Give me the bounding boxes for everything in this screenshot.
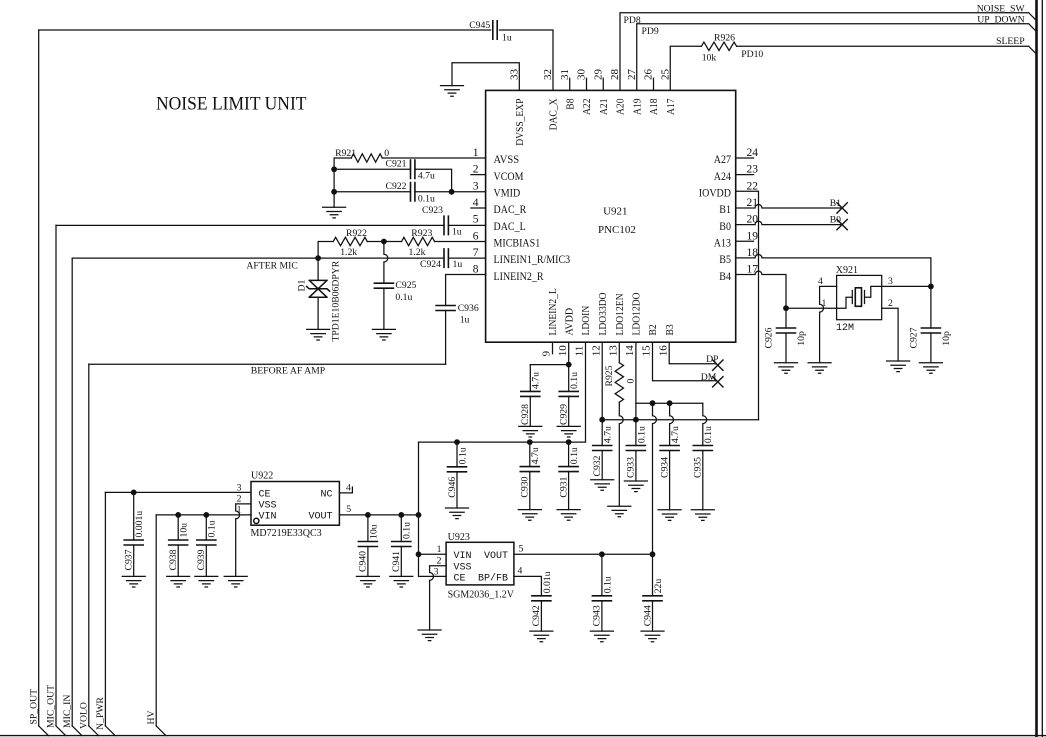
junction dot B4 C926	[783, 305, 789, 311]
wire 3.3V vertical C946 rail to U923 VIN	[418, 442, 420, 554]
svg-text:U923: U923	[448, 532, 470, 543]
svg-text:CE: CE	[259, 490, 271, 501]
junction dot C938	[175, 512, 181, 518]
svg-text:MD7219E33QC3: MD7219E33QC3	[251, 528, 322, 539]
wire R925 to ground with hop	[619, 402, 623, 506]
3.3V LDO rail horizontal	[602, 419, 758, 421]
ground C935	[691, 510, 714, 521]
ground R921 node	[323, 207, 346, 218]
capacitor C944 22u	[652, 554, 654, 596]
svg-text:5: 5	[346, 504, 351, 515]
svg-text:17: 17	[747, 264, 759, 276]
svg-text:R921: R921	[335, 148, 356, 159]
svg-text:PNC102: PNC102	[598, 224, 636, 236]
node VCOM capacitor wire C921	[334, 169, 452, 192]
svg-text:MIC_IN: MIC_IN	[62, 695, 73, 728]
svg-text:LINEIN2_L: LINEIN2_L	[547, 288, 559, 336]
svg-text:4.7u: 4.7u	[603, 426, 614, 443]
junction dot pin14 rail	[633, 417, 639, 423]
capacitor C939 0.1u	[205, 515, 207, 540]
ground C946	[446, 508, 469, 519]
svg-text:4: 4	[518, 566, 523, 577]
wire C925 branch vertical with hop	[384, 242, 388, 284]
svg-text:N_PWR: N_PWR	[95, 697, 106, 730]
wire LDO12DO pin 14 vertical	[635, 342, 637, 420]
svg-text:DAC_R: DAC_R	[494, 204, 527, 216]
svg-text:0.1u: 0.1u	[402, 522, 413, 539]
svg-text:10u: 10u	[179, 523, 190, 538]
wire crystal pin 3 to C927 node	[882, 285, 931, 287]
capacitor C945 1u	[493, 21, 497, 39]
svg-text:LDO12DO: LDO12DO	[631, 292, 643, 335]
svg-text:A24: A24	[714, 171, 731, 183]
wire B0 pin 20 no connect	[736, 221, 842, 224]
capacitor C927 10p	[930, 286, 932, 328]
wire MIC_IN rail vertical	[71, 258, 73, 726]
junction dot 3.3V cross	[416, 512, 422, 518]
svg-text:HV: HV	[146, 711, 157, 725]
wire HV rail vertical	[155, 515, 157, 726]
ground C928	[519, 426, 542, 437]
ground C927	[919, 363, 942, 374]
wire U922 VOUT 3.3V net	[339, 514, 418, 516]
wire DAC_L pin 5 to MIC_OUT	[56, 224, 486, 226]
svg-text:7: 7	[473, 247, 479, 259]
svg-text:VIN: VIN	[454, 551, 472, 562]
crystal X921 12M body	[837, 275, 882, 319]
svg-text:DVSS_EXP: DVSS_EXP	[514, 99, 526, 146]
svg-text:2: 2	[888, 298, 893, 309]
svg-text:22u: 22u	[653, 579, 664, 594]
svg-text:R925: R925	[604, 365, 615, 386]
svg-text:12: 12	[590, 345, 602, 356]
svg-text:1u: 1u	[460, 314, 470, 325]
svg-text:C946: C946	[447, 477, 458, 498]
svg-text:C927: C927	[909, 327, 920, 348]
capacitor C937 0.001u	[133, 492, 135, 540]
junction dot C930	[527, 439, 533, 445]
svg-text:4.7u: 4.7u	[530, 447, 541, 464]
capacitor C929 0.1u	[559, 391, 578, 396]
wire CE net U922 pin 3	[105, 491, 251, 493]
ground crystal pin2	[887, 361, 910, 372]
ground C937	[122, 576, 145, 587]
svg-text:A13: A13	[714, 237, 731, 249]
wire 1.2V long vertical to U923 VOUT	[653, 403, 657, 554]
junction dot B5 C927	[928, 284, 934, 290]
capacitor C926 10p	[785, 308, 787, 328]
capacitor C941 0.1u	[400, 515, 402, 542]
svg-text:LINEIN2_R: LINEIN2_R	[494, 271, 544, 283]
svg-text:0.1u: 0.1u	[602, 576, 613, 593]
ground C942	[530, 631, 553, 642]
junction dot AFTER MIC D1	[315, 255, 321, 261]
svg-text:15: 15	[641, 345, 653, 357]
svg-text:IOVDD: IOVDD	[699, 188, 731, 200]
capacitor C932 4.7u	[593, 446, 612, 451]
svg-text:C935: C935	[693, 457, 704, 478]
wire U923 CE tie to VIN	[419, 554, 447, 576]
wire AVSS pin 1 with R921	[334, 158, 486, 207]
svg-text:8: 8	[473, 264, 479, 276]
capacitor C931 0.1u	[568, 442, 570, 467]
svg-text:19: 19	[747, 230, 759, 242]
ground C938	[167, 576, 190, 587]
svg-text:A20: A20	[615, 98, 627, 115]
svg-text:PD10: PD10	[741, 49, 763, 60]
junction dot row C934 column	[667, 400, 673, 406]
svg-text:0.01u: 0.01u	[542, 571, 553, 593]
junction dot R922 R923	[381, 239, 387, 245]
svg-text:12M: 12M	[836, 323, 854, 334]
ground D1	[307, 329, 330, 340]
no-connect X B1	[837, 203, 847, 213]
resistor R923 1.2k	[402, 237, 435, 245]
svg-text:B3: B3	[664, 324, 676, 336]
U922 NC stub pin 4	[339, 487, 352, 493]
junction dot C937	[131, 490, 137, 496]
svg-text:VIN: VIN	[259, 512, 277, 523]
svg-text:B0: B0	[830, 215, 841, 226]
wire U922 VSS pin 2 to ground	[236, 504, 251, 577]
resistor R921 0	[351, 154, 382, 162]
wire U923 VIN pin 1	[419, 553, 447, 555]
svg-text:VOUT: VOUT	[484, 551, 508, 562]
svg-text:1u: 1u	[502, 32, 512, 43]
wire BEFORE AF AMP net	[89, 363, 446, 365]
svg-text:3: 3	[473, 180, 479, 192]
svg-text:10u: 10u	[368, 524, 379, 539]
wire DVSS_EXP pin 33 to ground	[452, 63, 519, 91]
capacitor C946 0.1u	[456, 442, 458, 467]
svg-text:C937: C937	[124, 549, 135, 570]
svg-text:0: 0	[626, 379, 637, 384]
svg-text:VSS: VSS	[454, 562, 472, 573]
svg-text:B4: B4	[719, 271, 731, 283]
svg-text:C936: C936	[458, 303, 479, 314]
junction dot C922 left	[331, 189, 337, 195]
svg-text:0.1u: 0.1u	[418, 194, 435, 205]
wire N_PWR rail vertical	[104, 492, 106, 726]
svg-text:MIC_OUT: MIC_OUT	[46, 685, 57, 728]
junction dot C931	[566, 439, 572, 445]
svg-text:C934: C934	[659, 457, 670, 478]
svg-text:VSS: VSS	[259, 501, 277, 512]
svg-text:3: 3	[888, 276, 893, 287]
svg-text:R926: R926	[714, 32, 735, 43]
wire MIC_OUT rail vertical	[55, 225, 57, 726]
wire SP_OUT top horizontal to C945	[39, 29, 491, 31]
svg-text:DAC_X: DAC_X	[548, 98, 560, 130]
svg-text:SGM2036_1.2V: SGM2036_1.2V	[448, 589, 515, 600]
svg-text:1.2k: 1.2k	[340, 247, 357, 258]
svg-text:18: 18	[747, 247, 759, 259]
svg-text:13: 13	[608, 345, 620, 357]
svg-text:C929: C929	[559, 404, 570, 425]
svg-text:C928: C928	[520, 404, 531, 425]
svg-text:0.1u: 0.1u	[395, 292, 412, 303]
wire B1 pin 21 no connect	[736, 205, 842, 208]
wire SP_OUT rail left vertical	[38, 30, 40, 726]
wire R926 to SLEEP border	[737, 46, 1037, 54]
capacitor C940 10u	[367, 515, 369, 542]
resistor R926 10k	[701, 42, 736, 50]
svg-text:9: 9	[541, 350, 553, 356]
svg-text:U922: U922	[251, 471, 273, 482]
svg-text:0.1u: 0.1u	[569, 447, 580, 464]
svg-text:SLEEP: SLEEP	[996, 36, 1025, 47]
svg-text:1: 1	[473, 147, 479, 159]
wire B3 pin 16 to DP	[669, 342, 716, 364]
svg-text:AFTER MIC: AFTER MIC	[246, 261, 297, 272]
svg-text:C945: C945	[469, 20, 490, 31]
wire B2 pin 15 to DM	[653, 342, 717, 381]
svg-text:4: 4	[473, 197, 479, 209]
svg-text:2: 2	[437, 556, 442, 567]
junction dot VMID	[449, 189, 455, 195]
ground C941	[390, 576, 413, 587]
capacitor C936 1u	[436, 306, 455, 311]
svg-text:LINEIN1_R/MIC3: LINEIN1_R/MIC3	[494, 254, 571, 266]
no-connect X DM	[713, 377, 723, 387]
svg-text:1: 1	[437, 544, 442, 555]
svg-text:2: 2	[237, 494, 242, 505]
wire B5 pin 18 to crystal	[736, 254, 931, 286]
svg-text:VOUT: VOUT	[308, 512, 332, 523]
svg-text:PD8: PD8	[624, 15, 641, 26]
svg-text:BEFORE AF AMP: BEFORE AF AMP	[251, 366, 325, 377]
wire rail diagonal exits at bottom border	[39, 726, 166, 736]
svg-text:23: 23	[747, 164, 759, 176]
wire VOLO rail vertical	[88, 364, 90, 726]
svg-text:U921: U921	[603, 206, 627, 218]
wire MICBIAS1 pin 6 resistors	[318, 242, 486, 259]
sheet border right double line	[1035, 0, 1038, 737]
wire C945 to pin 32 DAC_X	[499, 30, 553, 90]
junction dot C941	[398, 512, 404, 518]
svg-text:X921: X921	[836, 265, 858, 276]
ground C930	[518, 510, 541, 521]
capacitor C934 4.7u	[670, 403, 674, 445]
wire AVDD pin 10 node	[530, 342, 568, 391]
capacitor C938 10u	[177, 515, 179, 540]
sheet border bottom line	[0, 735, 1046, 737]
svg-text:C943: C943	[592, 605, 603, 626]
ground C929	[557, 426, 580, 437]
svg-text:4.7u: 4.7u	[670, 426, 681, 443]
svg-text:6: 6	[473, 230, 479, 242]
svg-text:14: 14	[624, 345, 636, 357]
svg-text:C925: C925	[395, 280, 416, 291]
svg-text:AVSS: AVSS	[494, 154, 520, 166]
svg-text:0.1u: 0.1u	[703, 426, 714, 443]
svg-text:R922: R922	[346, 228, 367, 239]
svg-text:11: 11	[574, 346, 586, 357]
wire PD9 UP_DOWN net pin 27	[637, 24, 1037, 91]
svg-text:VMID: VMID	[494, 188, 521, 200]
junction dot C940	[365, 512, 371, 518]
svg-text:NC: NC	[320, 490, 332, 501]
svg-text:0.1u: 0.1u	[636, 426, 647, 443]
svg-text:C940: C940	[358, 551, 369, 572]
ground R925	[608, 506, 631, 517]
svg-text:C922: C922	[386, 181, 407, 192]
svg-text:MICBIAS1: MICBIAS1	[494, 237, 541, 249]
svg-text:B5: B5	[719, 254, 731, 266]
wire PD8 NOISE_SW net pin 28	[620, 13, 1037, 91]
U922 VIN pin indicator circle	[254, 518, 259, 523]
ground C931	[557, 510, 580, 521]
junction dot U923 VIN	[416, 551, 422, 557]
svg-text:BP/FB: BP/FB	[478, 573, 508, 585]
svg-text:C926: C926	[764, 327, 775, 348]
ground C940	[356, 576, 379, 587]
svg-text:4: 4	[818, 276, 823, 287]
capacitor C921 4.7u	[411, 160, 415, 178]
wire LDO33DO pin 12 to rail	[601, 342, 603, 445]
svg-text:D1: D1	[297, 280, 308, 292]
svg-text:2: 2	[473, 164, 479, 176]
svg-text:0.1u: 0.1u	[457, 447, 468, 464]
svg-text:3: 3	[434, 566, 439, 577]
svg-text:1.2k: 1.2k	[409, 247, 426, 258]
svg-text:C938: C938	[168, 549, 179, 570]
svg-text:B1: B1	[719, 204, 731, 216]
svg-text:TPD1E10B06DPYR: TPD1E10B06DPYR	[330, 260, 341, 341]
svg-text:C924: C924	[420, 259, 441, 270]
ground crystal pin4	[808, 363, 831, 374]
svg-text:1u: 1u	[453, 259, 463, 270]
wire VIN net U922 pin 1	[156, 514, 251, 516]
svg-text:C942: C942	[531, 605, 542, 626]
capacitor C943 0.1u	[601, 554, 603, 596]
svg-text:C921: C921	[386, 158, 407, 169]
svg-text:NOISE_SW: NOISE_SW	[977, 3, 1026, 14]
svg-text:16: 16	[657, 345, 669, 357]
capacitor C935 0.1u	[703, 403, 707, 445]
capacitor C924 1u	[444, 249, 448, 267]
wire U923 BP/FB pin 4 to C942	[514, 576, 542, 595]
svg-text:0.1u: 0.1u	[569, 372, 580, 389]
capacitor C922 0.1u	[411, 183, 415, 201]
svg-text:SP_OUT: SP_OUT	[28, 689, 39, 725]
capacitor C942 0.01u	[532, 596, 551, 601]
IC U921 PNC102 body	[486, 90, 736, 342]
svg-text:VCOM: VCOM	[494, 171, 524, 183]
wire LDO12EN pin 13 via R925	[618, 342, 620, 363]
svg-text:A19: A19	[631, 98, 643, 115]
wire crystal pin 1 node to C926	[786, 307, 837, 309]
resistor R925 0	[615, 363, 623, 403]
ground C939	[195, 576, 218, 587]
ground C934	[658, 510, 681, 521]
svg-text:0.1u: 0.1u	[207, 520, 218, 537]
svg-text:C939: C939	[196, 549, 207, 570]
svg-text:A27: A27	[714, 154, 731, 166]
capacitor C933 0.1u	[635, 420, 637, 446]
no-connect X B0	[837, 219, 847, 229]
svg-text:10k: 10k	[702, 52, 717, 63]
ground U922 VSS	[224, 576, 247, 587]
ground C933	[624, 481, 647, 492]
svg-text:B8: B8	[564, 98, 576, 110]
ground DVSS_EXP	[441, 86, 464, 97]
junction dot C943	[599, 551, 605, 557]
ground C943	[590, 631, 613, 642]
svg-text:10p: 10p	[796, 331, 807, 346]
ground C925	[372, 329, 395, 340]
svg-text:C932: C932	[592, 455, 603, 476]
capacitor C925 0.1u	[374, 283, 393, 288]
svg-text:LDOIN: LDOIN	[580, 306, 592, 336]
svg-text:4: 4	[346, 483, 351, 494]
svg-text:22: 22	[747, 180, 759, 192]
svg-text:C923: C923	[422, 205, 443, 216]
U921 unconnected pin stubs	[471, 78, 754, 354]
junction dot pin12 rail	[599, 417, 605, 423]
junction dot C921 left	[331, 166, 337, 172]
svg-text:A21: A21	[598, 99, 610, 116]
junction dot C944	[650, 551, 656, 557]
junction dot C939	[203, 512, 209, 518]
junction dot AVDD	[566, 362, 572, 368]
svg-text:0.001u: 0.001u	[134, 511, 145, 538]
svg-text:C930: C930	[520, 476, 531, 497]
svg-text:B1: B1	[830, 198, 841, 209]
wire AFTER MIC net LINEIN1_R pin 7	[72, 257, 485, 259]
diode D1 TVS TPD1E10B06DPYR	[317, 258, 319, 280]
svg-text:A17: A17	[665, 98, 677, 115]
capacitor C930 4.7u	[529, 442, 531, 467]
junction dot row B2 column	[650, 400, 656, 406]
wire 1.2V row horizontal	[636, 402, 703, 404]
wire LDOIN pin 11 vertical to 3.3V rail	[419, 342, 586, 442]
wire B4 pin 17 to crystal	[736, 271, 786, 308]
svg-text:5: 5	[519, 544, 524, 555]
wire LINEIN2_R pin 8 to C936	[446, 275, 486, 306]
svg-text:1u: 1u	[452, 226, 462, 237]
wire U923 VOUT 1.2V net	[514, 553, 653, 555]
resistor R922 1.2k	[333, 237, 367, 245]
svg-text:AVDD: AVDD	[563, 308, 575, 336]
svg-text:21: 21	[747, 197, 759, 209]
svg-text:C944: C944	[642, 605, 653, 626]
svg-text:DAC_L: DAC_L	[494, 221, 526, 233]
IC U923 regulator SGM2036_1.2V body	[446, 542, 514, 585]
wire SLEEP PD10 net pin 25	[670, 46, 701, 90]
svg-text:VOLO: VOLO	[79, 702, 90, 729]
svg-text:A22: A22	[581, 99, 593, 116]
svg-text:LDO12EN: LDO12EN	[614, 293, 626, 335]
ground U923 VSS	[418, 630, 441, 641]
ground C926	[775, 363, 798, 374]
svg-text:B0: B0	[719, 221, 731, 233]
svg-text:4.7u: 4.7u	[531, 372, 542, 389]
wire IOVDD pin 22 vertical rail	[736, 191, 759, 419]
svg-text:CE: CE	[454, 574, 466, 585]
svg-text:B2: B2	[647, 324, 659, 335]
no-connect X DP	[713, 360, 723, 370]
svg-text:4.7u: 4.7u	[418, 171, 435, 182]
svg-text:24: 24	[747, 147, 759, 159]
IC U922 regulator MD7219E33QC3 body	[251, 482, 339, 526]
svg-text:C941: C941	[391, 551, 402, 572]
svg-text:R923: R923	[411, 228, 432, 239]
svg-text:20: 20	[747, 214, 759, 226]
svg-text:A18: A18	[648, 98, 660, 115]
capacitor C923 1u	[444, 216, 448, 234]
svg-text:10p: 10p	[941, 331, 952, 346]
